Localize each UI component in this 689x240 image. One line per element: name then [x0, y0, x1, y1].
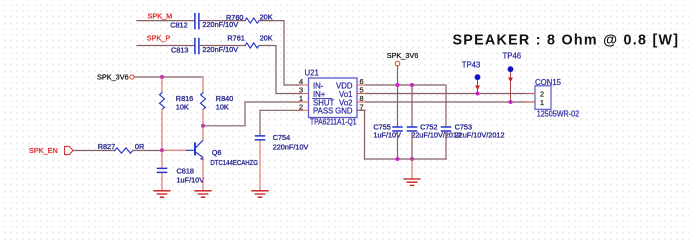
wire Vo2 row to CON15 [366, 101, 536, 103]
wire SHUT net to U21 pin1 [203, 102, 300, 126]
svg-text:DTC144ECAHZG: DTC144ECAHZG [210, 158, 258, 167]
capacitor C812 [170, 14, 238, 30]
capacitor C752 22uF/10V/2012 [408, 123, 462, 140]
resistor R840 10K [201, 77, 234, 112]
resistor R816 10K [160, 77, 194, 112]
wire R760 to U21 pin4 [259, 21, 300, 85]
svg-text:SPEAKER : 8 Ohm @ 0.8 [W]: SPEAKER : 8 Ohm @ 0.8 [W] [453, 32, 680, 48]
ground under C754 [252, 191, 268, 197]
svg-text:C818: C818 [177, 167, 194, 176]
U21 left pin stubs [300, 85, 309, 110]
svg-text:TPA6211A1-Q1: TPA6211A1-Q1 [310, 118, 357, 127]
svg-text:1uF/10V: 1uF/10V [177, 176, 205, 185]
wire C753 to rail [445, 132, 447, 159]
svg-text:R761: R761 [227, 33, 244, 42]
test point TP43 [462, 61, 481, 94]
wire C818 to ground [161, 173, 163, 191]
capacitor C818 [158, 150, 205, 184]
wire R761 to U21 pin3 [259, 46, 300, 94]
U21 right pin stubs [357, 85, 366, 110]
svg-text:SPK_P: SPK_P [147, 33, 171, 42]
junction VDD/SPK_3V6 [396, 83, 400, 87]
svg-text:SPK_EN: SPK_EN [29, 146, 58, 155]
svg-text:10K: 10K [216, 103, 229, 112]
svg-text:TP43: TP43 [462, 61, 481, 70]
wire Vo1 row to CON15 [366, 93, 536, 95]
svg-text:U21: U21 [305, 69, 319, 78]
connector CON15 [527, 78, 580, 119]
junction TP46/Vo2 [509, 100, 513, 104]
svg-text:SPK_3V6: SPK_3V6 [97, 72, 129, 81]
svg-text:PASS: PASS [313, 107, 333, 116]
wire bottom ground rail [365, 158, 447, 160]
wire C813 to R761 [200, 45, 245, 47]
svg-text:20K: 20K [260, 33, 273, 42]
resistor R761 20K [227, 33, 272, 48]
junction rail/C755 [396, 157, 400, 161]
ground under C818 [154, 191, 170, 197]
svg-text:12505WR-02: 12505WR-02 [537, 109, 580, 118]
capacitor C813 [171, 39, 238, 55]
svg-text:GND: GND [335, 107, 353, 116]
wire Q6 collector up [202, 126, 204, 141]
svg-text:R827: R827 [98, 142, 115, 151]
wire R827 to base node [133, 150, 162, 152]
wire VDD rail [366, 85, 447, 127]
power port SPK_3V6 (right) [387, 51, 419, 66]
wire SPK_EN to R827 [73, 150, 114, 152]
wire C752 branch [411, 85, 413, 127]
wire C755 to rail [397, 132, 399, 159]
ground under Q6 [195, 191, 211, 197]
wire SPK_3V6 rail to R816/R840 [134, 76, 203, 78]
svg-text:Q6: Q6 [212, 148, 222, 157]
svg-text:SPK_3V6: SPK_3V6 [387, 51, 419, 60]
wire node to Q6 base [162, 149, 187, 151]
junction R840/Q6/SHUT [201, 124, 205, 128]
junction base node [160, 148, 164, 152]
wire U21 pin7 GND down [357, 110, 365, 159]
junction TP43/Vo1 [476, 92, 480, 96]
wire C812 to R760 [200, 20, 245, 22]
wire Q6 emitter to ground [202, 157, 204, 191]
wire SPK_3V6 down to VDD rail and C755 [397, 66, 399, 127]
svg-text:C812: C812 [170, 20, 187, 29]
svg-text:TP46: TP46 [503, 52, 522, 61]
amplifier IC U21 TPA6211A1-Q1 [305, 69, 358, 127]
wire ground stem from rail [411, 159, 413, 179]
svg-text:220nF/10V: 220nF/10V [273, 143, 309, 152]
resistor R827 0R [98, 142, 145, 153]
wire U21 pin2 PASS to C754 [260, 110, 300, 135]
svg-text:0R: 0R [135, 142, 144, 151]
junction VDD/C752 [410, 83, 414, 87]
svg-text:SPK_M: SPK_M [148, 12, 173, 21]
wire R816 bottom to node [161, 110, 163, 151]
transistor Q6 DTC144ECAHZG [187, 140, 259, 167]
wire SPK_P to C813 [137, 45, 194, 47]
svg-text:22uF/10V/2012: 22uF/10V/2012 [455, 131, 505, 140]
wire C752 to rail [411, 132, 413, 159]
svg-text:C813: C813 [171, 45, 188, 54]
svg-text:2: 2 [299, 103, 303, 112]
resistor R760 20K [226, 13, 273, 24]
junction rail/C752 [410, 157, 414, 161]
junction at R816 top [160, 75, 164, 79]
test point TP46 [503, 52, 522, 103]
ground below rail [404, 179, 420, 185]
power port SPK_3V6 (left) [97, 72, 134, 81]
svg-text:220nF/10V: 220nF/10V [202, 45, 238, 54]
wire R840 bottom to collector node [202, 110, 204, 126]
capacitor C755 1uF/10V [373, 123, 402, 140]
svg-text:1: 1 [540, 98, 544, 107]
capacitor C754 220nF/10V [256, 133, 309, 152]
wire C754 to ground [259, 141, 261, 191]
port SPK_EN [29, 146, 73, 155]
svg-text:R760: R760 [226, 13, 243, 22]
wire SPK_M to C812 [137, 20, 194, 22]
svg-text:C754: C754 [273, 133, 290, 142]
capacitor C753 22uF/10V/2012 [442, 123, 505, 140]
svg-text:10K: 10K [176, 103, 189, 112]
